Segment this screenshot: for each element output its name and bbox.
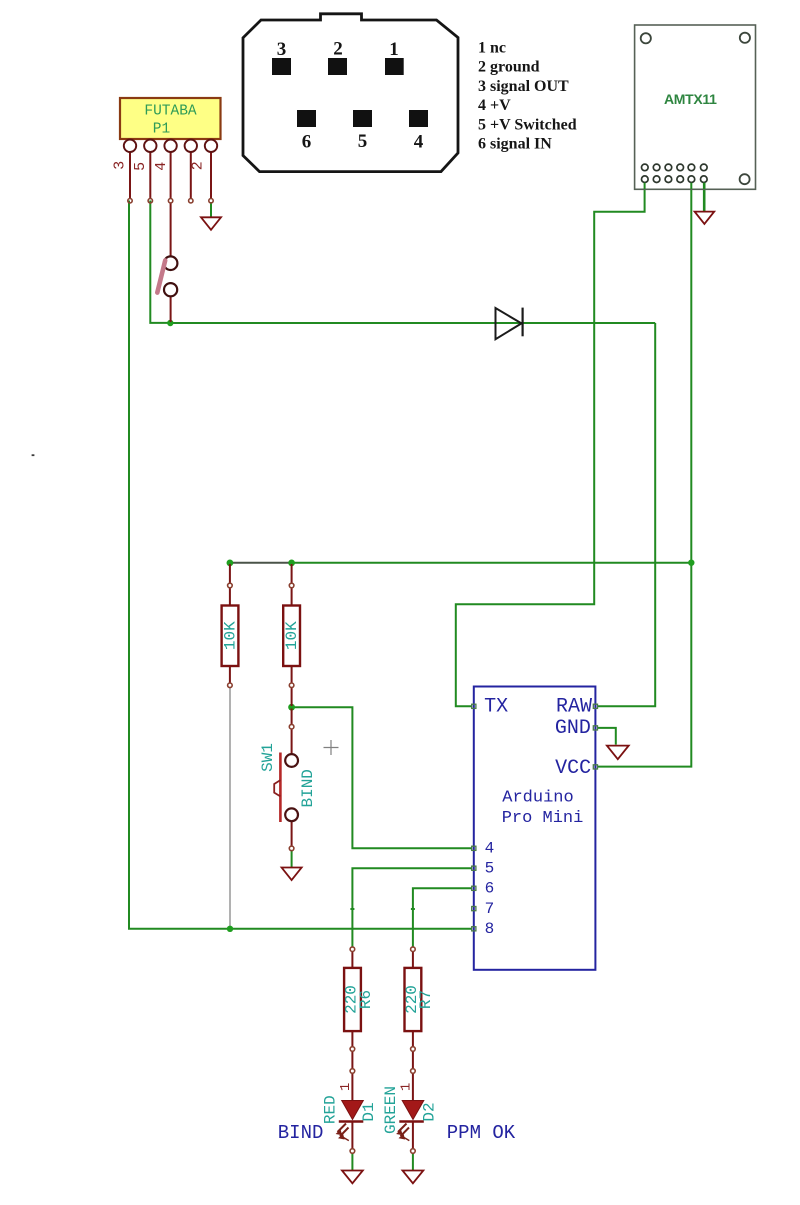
- svg-text:5: 5: [132, 162, 149, 171]
- svg-text:4: 4: [153, 162, 170, 171]
- svg-text:2 ground: 2 ground: [478, 59, 540, 76]
- svg-text:10K: 10K: [283, 621, 301, 650]
- svg-text:8: 8: [485, 920, 495, 938]
- svg-text:5: 5: [358, 131, 368, 152]
- svg-text:6: 6: [485, 880, 495, 898]
- svg-text:1: 1: [338, 1083, 354, 1091]
- svg-text:5: 5: [485, 860, 495, 878]
- svg-text:4: 4: [485, 840, 495, 858]
- svg-text:TX: TX: [484, 696, 508, 719]
- svg-text:3 signal OUT: 3 signal OUT: [478, 78, 569, 95]
- svg-text:4: 4: [414, 132, 424, 153]
- svg-text:1: 1: [389, 39, 399, 60]
- svg-text:GREEN: GREEN: [382, 1086, 400, 1134]
- svg-text:6 signal IN: 6 signal IN: [478, 136, 552, 153]
- svg-text:D1: D1: [360, 1102, 378, 1121]
- svg-text:GND: GND: [555, 717, 591, 740]
- svg-text:10K: 10K: [222, 621, 240, 650]
- svg-text:BIND: BIND: [299, 769, 317, 807]
- svg-text:BIND: BIND: [278, 1122, 324, 1144]
- svg-text:2: 2: [333, 39, 343, 60]
- svg-text:6: 6: [302, 132, 312, 153]
- svg-text:Arduino: Arduino: [502, 789, 573, 808]
- svg-text:SW1: SW1: [259, 743, 277, 772]
- svg-text:PPM OK: PPM OK: [447, 1122, 516, 1144]
- svg-text:5 +V Switched: 5 +V Switched: [478, 116, 577, 133]
- svg-text:AMTX11: AMTX11: [664, 91, 717, 107]
- svg-text:1: 1: [399, 1083, 415, 1091]
- svg-text:1 nc: 1 nc: [478, 40, 506, 57]
- svg-text:2: 2: [190, 161, 207, 170]
- svg-text:FUTABA: FUTABA: [144, 104, 197, 120]
- svg-text:R6: R6: [357, 990, 375, 1009]
- svg-text:Pro Mini: Pro Mini: [502, 809, 584, 828]
- svg-text:VCC: VCC: [555, 757, 591, 780]
- svg-text:RAW: RAW: [556, 696, 592, 719]
- svg-text:3: 3: [112, 161, 129, 170]
- svg-text:RED: RED: [322, 1095, 340, 1124]
- svg-text:R7: R7: [417, 990, 435, 1009]
- svg-text:4 +V: 4 +V: [478, 97, 511, 114]
- svg-text:D2: D2: [421, 1102, 439, 1121]
- svg-text:P1: P1: [153, 122, 170, 138]
- svg-text:7: 7: [485, 900, 495, 918]
- svg-text:3: 3: [277, 39, 287, 60]
